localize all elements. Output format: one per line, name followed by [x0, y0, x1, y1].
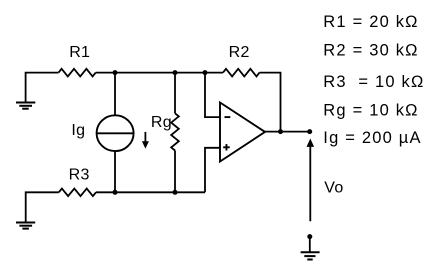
wire inverting input branch — [205, 73, 220, 118]
node dot top of Ig — [113, 70, 118, 75]
svg-text:R2 = 30 kΩ: R2 = 30 kΩ — [323, 42, 418, 60]
node dot feedback junction — [278, 129, 283, 134]
wire Ig top lead — [114, 73, 116, 116]
ground GND2 (left of R3) — [16, 223, 35, 229]
wire top-left corner to ground — [26, 73, 59, 103]
current source Ig circle — [97, 115, 134, 151]
op-amp minus sign — [225, 116, 231, 118]
svg-text:R1 = 20 kΩ: R1 = 20 kΩ — [323, 13, 418, 31]
wire dot to ground GND3 — [309, 237, 311, 253]
wire op-amp output — [265, 131, 310, 133]
resistor Rg — [171, 113, 179, 150]
svg-text:Vo: Vo — [324, 179, 343, 196]
Vo arrow — [307, 139, 315, 222]
resistor R3 — [59, 189, 96, 197]
node dot top of Rg — [173, 70, 178, 75]
node dot bottom of Rg — [173, 190, 178, 195]
svg-text:R2: R2 — [229, 44, 250, 61]
wire R1 to R2 — [96, 72, 223, 74]
current direction arrow of Ig — [142, 132, 149, 149]
svg-text:Ig: Ig — [71, 122, 85, 139]
ground GND1 (left of R1) — [16, 103, 35, 109]
op-amp U1 triangle — [220, 103, 265, 162]
svg-text:Ig = 200 µA: Ig = 200 µA — [323, 129, 421, 147]
node dot above ground GND3 — [307, 234, 312, 239]
wire non-inverting input branch — [205, 148, 220, 193]
ground GND3 (below Vo) — [301, 252, 320, 259]
wire Rg bottom lead — [174, 151, 176, 193]
op-amp plus sign — [223, 144, 230, 150]
wire bottom-left corner to ground — [26, 192, 59, 222]
svg-text:R1: R1 — [69, 44, 90, 61]
current source Ig chord — [97, 132, 134, 134]
resistor R1 — [59, 69, 96, 77]
node dot inverting branch — [203, 70, 208, 75]
node dot output Vo — [307, 129, 312, 134]
svg-text:R3 = 10 kΩ: R3 = 10 kΩ — [323, 73, 424, 91]
wire R3 to non-inverting branch — [96, 191, 205, 193]
wire Rg top lead — [174, 73, 176, 114]
svg-text:R3: R3 — [69, 166, 90, 183]
svg-text:Rg = 10 kΩ: Rg = 10 kΩ — [323, 102, 418, 120]
wire R2 to feedback corner — [260, 73, 281, 132]
wire Ig bottom lead — [114, 151, 116, 192]
svg-text:Rg: Rg — [151, 114, 172, 131]
node dot bottom of Ig — [113, 190, 118, 195]
resistor R2 — [223, 69, 260, 77]
